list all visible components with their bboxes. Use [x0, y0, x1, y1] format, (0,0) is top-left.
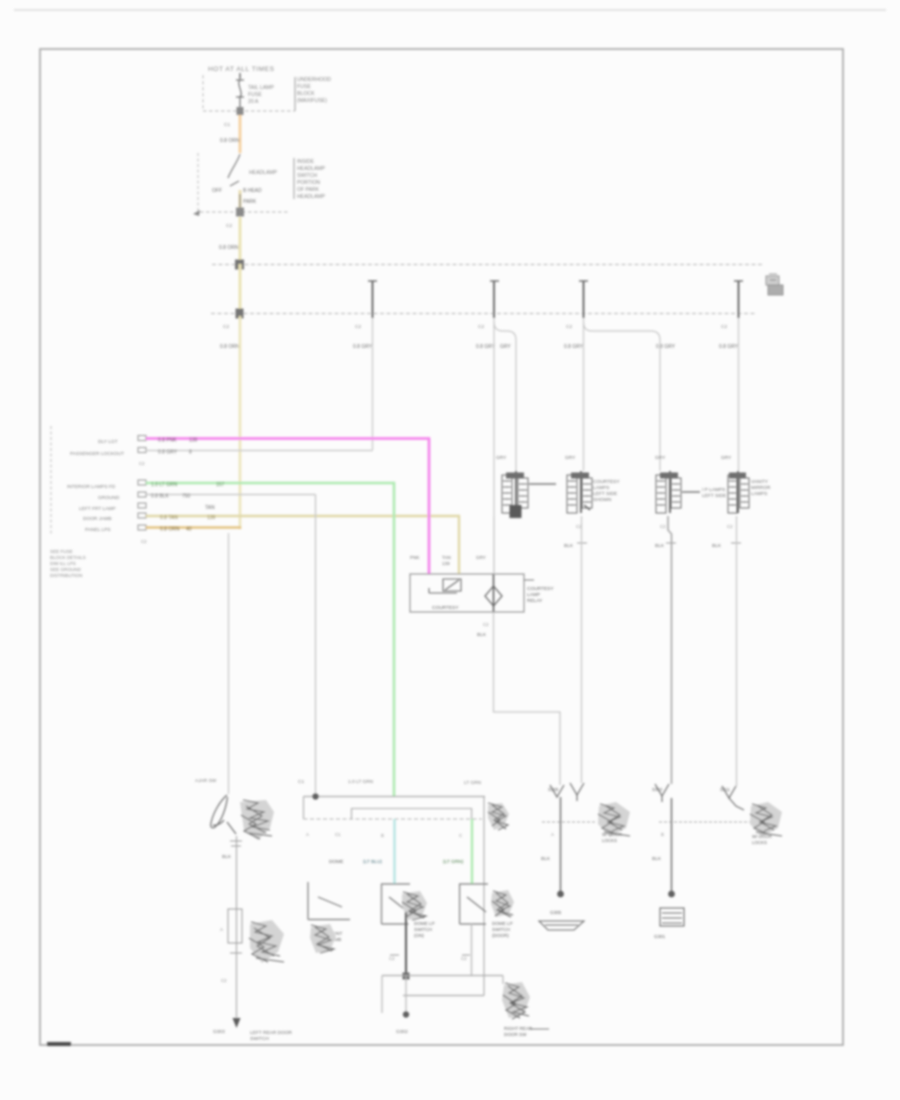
- svg-text:G301: G301: [654, 934, 666, 939]
- svg-text:BLK: BLK: [477, 632, 487, 638]
- switch SW-C icon: [491, 890, 514, 917]
- svg-text:139: 139: [442, 561, 450, 566]
- svg-text:SWITCH: SWITCH: [250, 1036, 269, 1042]
- wire ORN fuse to switch: [239, 115, 242, 153]
- svg-text:PORTION: PORTION: [297, 180, 320, 186]
- svg-text:TAN: TAN: [442, 555, 451, 560]
- svg-text:RELAY: RELAY: [527, 598, 543, 604]
- svg-text:SEE FUSE: SEE FUSE: [50, 549, 73, 554]
- bottom bus left drop: [381, 976, 383, 1014]
- svg-text:LOCKS: LOCKS: [602, 838, 617, 843]
- drop wire 1: [372, 281, 374, 318]
- svg-text:LAMPS: LAMPS: [593, 485, 609, 491]
- fuse F1: [236, 80, 244, 108]
- svg-text:C1: C1: [335, 832, 341, 837]
- svg-text:HEADLAMP: HEADLAMP: [297, 166, 326, 172]
- switch dashed boundary: [197, 153, 199, 212]
- svg-text:0.8 TAN: 0.8 TAN: [160, 515, 178, 521]
- junction dot gray wire at console: [312, 793, 318, 799]
- svg-text:PNK: PNK: [410, 555, 420, 560]
- svg-text:FUSE: FUSE: [248, 92, 262, 98]
- splice icon far right: [750, 802, 782, 837]
- svg-text:COURTESY: COURTESY: [527, 586, 554, 592]
- junction dot SW-B ground: [405, 976, 407, 1013]
- console box top: [304, 796, 486, 798]
- wire PNK vertical: [428, 437, 431, 574]
- wire to ground G2: [671, 798, 673, 892]
- svg-text:C2: C2: [139, 461, 145, 466]
- drop wire 2: [493, 281, 495, 318]
- svg-text:C: C: [459, 833, 462, 838]
- connector arrow A3: [655, 784, 669, 802]
- junction dot G1: [557, 891, 564, 898]
- wire lamp B return: [581, 516, 583, 783]
- switch SW-B icon: [402, 891, 427, 920]
- drop wire 3 tick: [579, 280, 588, 282]
- svg-text:HOT AT ALL TIMES: HOT AT ALL TIMES: [208, 66, 275, 73]
- wire ORN to left box: [239, 316, 242, 528]
- wire GRY row4: [146, 494, 316, 496]
- svg-text:OF PARK: OF PARK: [297, 187, 320, 193]
- svg-text:MIRROR: MIRROR: [751, 485, 771, 491]
- svg-text:0.8 GRY: 0.8 GRY: [158, 450, 178, 456]
- pin row 1: [138, 436, 146, 441]
- svg-text:G305: G305: [550, 910, 562, 915]
- console box left edge: [303, 797, 305, 820]
- svg-text:0.8 ORN: 0.8 ORN: [220, 344, 240, 350]
- fuse block bracket: [294, 77, 296, 111]
- svg-text:0.8 GRY: 0.8 GRY: [353, 344, 373, 350]
- svg-text:DOME LP: DOME LP: [414, 921, 435, 926]
- wire drop3 down to lamp B: [583, 318, 585, 471]
- junction dot G2: [668, 891, 675, 898]
- lamp L1 courtesy: [502, 471, 556, 513]
- wire GRY vertical row4: [315, 495, 317, 797]
- svg-text:C1: C1: [298, 779, 304, 785]
- svg-text:8: 8: [189, 450, 192, 456]
- wire drop4 down to lamp D: [738, 318, 740, 471]
- svg-text:0.8 GRY: 0.8 GRY: [564, 344, 584, 350]
- svg-text:GRY: GRY: [655, 455, 666, 461]
- connector arrow A2: [570, 783, 584, 801]
- bottom bus line 2: [403, 995, 484, 997]
- ground G305: [539, 910, 584, 930]
- svg-text:(LT BLU): (LT BLU): [363, 859, 382, 865]
- svg-text:SWITCH: SWITCH: [297, 173, 317, 179]
- svg-text:DOME LP: DOME LP: [492, 921, 513, 926]
- svg-text:0.8 GRY: 0.8 GRY: [656, 344, 676, 350]
- dome switch SW-C: [459, 884, 488, 924]
- switch SW-A icon: [310, 924, 336, 953]
- dashed inline connector right pair: [659, 821, 750, 823]
- svg-text:FUSE: FUSE: [297, 84, 311, 90]
- door branch splice icon: [250, 920, 284, 963]
- svg-text:0.8 GRY: 0.8 GRY: [719, 344, 739, 350]
- wire relay output path: [494, 612, 561, 785]
- wire SW-B output: [405, 912, 407, 976]
- svg-text:C2: C2: [226, 223, 232, 229]
- svg-text:0.8 GRY: 0.8 GRY: [476, 344, 496, 350]
- svg-text:BLK: BLK: [712, 543, 722, 549]
- lamp L2 courtesy: [567, 471, 592, 513]
- svg-text:BLK: BLK: [564, 543, 574, 549]
- svg-text:I P LAMPS: I P LAMPS: [702, 487, 725, 493]
- ground G301: [654, 908, 684, 939]
- inline connector door branch: [228, 909, 242, 943]
- lamp L3 courtesy: [656, 471, 700, 513]
- wire TAN row6: [146, 515, 459, 517]
- dashed connector line D: [211, 313, 756, 315]
- svg-text:SWITCH: SWITCH: [492, 927, 510, 932]
- svg-text:C1: C1: [224, 122, 230, 128]
- dashed inline connector left pair: [542, 821, 595, 823]
- svg-text:20 A: 20 A: [248, 99, 259, 105]
- svg-text:INSIDE: INSIDE: [297, 159, 315, 165]
- console box right edge: [483, 797, 485, 996]
- wire LT GRN row3: [146, 482, 394, 485]
- wire ORN corner: [239, 527, 242, 529]
- svg-text:DOOR SW: DOOR SW: [504, 1032, 527, 1037]
- svg-text:LEFT FRT LAMP: LEFT FRT LAMP: [79, 506, 116, 512]
- svg-text:LEFT REAR DOOR: LEFT REAR DOOR: [250, 1030, 293, 1036]
- svg-text:BLOCK: BLOCK: [297, 91, 315, 97]
- svg-text:G303: G303: [213, 1029, 225, 1035]
- lamp L4 courtesy: [728, 471, 749, 513]
- svg-text:(MAXIFUSE): (MAXIFUSE): [297, 98, 327, 104]
- connector icon C200: [766, 274, 783, 295]
- tick C1 door branch: [230, 840, 242, 842]
- wire LT BLU console: [393, 819, 395, 884]
- svg-text:C2: C2: [223, 324, 229, 330]
- dome switch SW-A: [308, 882, 350, 920]
- console dashed line: [304, 818, 483, 820]
- dashed connector line B: [200, 211, 290, 213]
- bottom splice tail: [530, 1028, 549, 1030]
- svg-text:HEADLAMP: HEADLAMP: [249, 170, 278, 176]
- svg-text:0.8 BLK: 0.8 BLK: [151, 494, 169, 500]
- svg-text:BLK: BLK: [541, 856, 551, 862]
- svg-text:PASSENGER LOCKOUT: PASSENGER LOCKOUT: [70, 451, 124, 457]
- svg-text:0.8 ORN: 0.8 ORN: [219, 245, 239, 251]
- bottom splice icon: [502, 982, 530, 1018]
- wire fuse feed: [239, 73, 241, 79]
- svg-text:139: 139: [189, 438, 198, 444]
- wire lamp A feed through relay: [493, 516, 495, 574]
- svg-text:DIM ILL LPS: DIM ILL LPS: [50, 561, 76, 566]
- wire ORN row7: [146, 526, 241, 529]
- connector pin on line B: [236, 208, 244, 217]
- svg-text:B HEAD: B HEAD: [243, 188, 262, 194]
- splice icon right of S309: [598, 802, 630, 837]
- svg-text:A: A: [551, 832, 554, 837]
- pin row 2: [138, 448, 146, 453]
- drop wire 3: [583, 281, 585, 318]
- pin row 5: [138, 503, 146, 508]
- pin row 6: [138, 513, 146, 518]
- svg-text:B: B: [661, 832, 664, 837]
- relay pointer: [524, 579, 534, 581]
- svg-text:C2: C2: [221, 978, 227, 983]
- svg-text:750: 750: [182, 494, 191, 500]
- tick C2 SW-C: [462, 954, 470, 956]
- svg-text:0.8 ORN: 0.8 ORN: [160, 527, 180, 533]
- svg-text:COURTESY: COURTESY: [593, 479, 620, 485]
- lamp L1 base: [510, 505, 522, 518]
- drop wire 1 tick: [368, 280, 377, 282]
- svg-text:C2: C2: [483, 622, 489, 627]
- bottom bus right drop: [502, 976, 504, 985]
- wire PNK row1: [146, 437, 429, 440]
- tick C2 SW-B: [390, 954, 399, 956]
- pin row 7: [138, 525, 146, 530]
- wire LT GRN vertical: [393, 482, 396, 797]
- pin row 3: [138, 480, 146, 485]
- console connector icon: [488, 803, 509, 830]
- ground arrow door branch: [233, 1018, 241, 1028]
- svg-text:0.8 PNK: 0.8 PNK: [158, 438, 177, 444]
- drop wire 2 tick: [490, 280, 499, 282]
- svg-text:C2: C2: [721, 324, 727, 330]
- svg-text:157: 157: [216, 482, 225, 488]
- svg-text:SWITCH: SWITCH: [414, 927, 432, 932]
- svg-text:LOCKS: LOCKS: [752, 840, 767, 845]
- svg-text:GROUND: GROUND: [98, 495, 120, 501]
- arrow A4 tail: [729, 798, 744, 810]
- connector arrow A4: [722, 786, 736, 798]
- footer tick mark: [47, 1042, 71, 1046]
- wire ORN to line D: [239, 264, 242, 313]
- svg-text:PANEL LPS: PANEL LPS: [85, 527, 111, 533]
- svg-text:GRY: GRY: [476, 555, 486, 560]
- wire below door switch: [236, 836, 238, 1019]
- svg-text:DOME: DOME: [329, 859, 343, 865]
- svg-text:G302: G302: [396, 1029, 408, 1035]
- dashed connector line C: [212, 264, 762, 266]
- door switch DS1: [211, 795, 236, 834]
- svg-text:RIGHT REAR: RIGHT REAR: [504, 1026, 533, 1031]
- bottom bus line 1: [382, 975, 503, 977]
- door switch icon: [240, 800, 274, 840]
- svg-text:BLOCK DETAILS: BLOCK DETAILS: [50, 555, 86, 560]
- console inner box: [352, 809, 472, 820]
- junction on line C: [235, 260, 244, 270]
- wire lamp D return: [736, 516, 738, 786]
- wire door sw branch: [228, 533, 230, 794]
- svg-text:C2: C2: [389, 956, 395, 961]
- svg-text:SHOWN: SHOWN: [593, 497, 612, 503]
- wire branch to lamp C: [584, 322, 661, 471]
- wire SW-C output: [471, 924, 473, 976]
- svg-text:C2: C2: [727, 524, 733, 529]
- svg-text:AJAR SW: AJAR SW: [195, 778, 217, 784]
- wire branch to lamp A: [494, 322, 516, 471]
- svg-text:LAMP: LAMP: [527, 592, 540, 598]
- svg-text:C2: C2: [478, 324, 484, 330]
- svg-text:C2: C2: [461, 956, 467, 961]
- svg-text:A: A: [220, 927, 223, 932]
- svg-text:BLK: BLK: [655, 543, 665, 549]
- svg-text:C2: C2: [566, 324, 572, 330]
- headlamp switch S1: [228, 154, 240, 212]
- pin row 4: [138, 492, 146, 497]
- svg-text:(DOOR): (DOOR): [492, 933, 509, 938]
- drop wire 4: [738, 281, 740, 318]
- svg-text:DOOR JAMB: DOOR JAMB: [83, 516, 112, 522]
- svg-text:B: B: [381, 833, 384, 838]
- junction SW-B at bus: [403, 973, 410, 980]
- connector arrow A1: [550, 785, 564, 797]
- svg-text:C2: C2: [355, 324, 361, 330]
- wire to ground G1: [560, 797, 562, 892]
- svg-text:UNDERHOOD: UNDERHOOD: [297, 77, 331, 83]
- svg-text:S310: S310: [652, 787, 663, 792]
- svg-text:C2: C2: [660, 524, 666, 529]
- tick C2 door branch: [230, 952, 242, 954]
- svg-text:(ON): (ON): [414, 933, 424, 938]
- wire drop1 to gray row: [372, 318, 374, 451]
- svg-text:W/ DOOR: W/ DOOR: [602, 832, 622, 837]
- relay K1 box: [410, 574, 524, 612]
- svg-text:GRY: GRY: [500, 344, 511, 350]
- svg-text:1.0 LT GRN: 1.0 LT GRN: [151, 482, 178, 488]
- connector pin C1: [237, 107, 244, 115]
- relay K1 diode: [485, 574, 502, 612]
- svg-text:TAN: TAN: [205, 505, 215, 511]
- svg-text:40: 40: [186, 527, 192, 533]
- page top rule: [14, 9, 886, 11]
- wire drop2 down to lamp A and relay: [493, 318, 495, 573]
- svg-text:INTERIOR LAMPS FD: INTERIOR LAMPS FD: [67, 484, 116, 490]
- svg-text:PARK: PARK: [243, 199, 257, 205]
- svg-text:DISTRIBUTION: DISTRIBUTION: [50, 573, 82, 578]
- svg-text:LAMPS: LAMPS: [751, 491, 767, 497]
- svg-text:GRY: GRY: [565, 455, 576, 461]
- wire LT GRN console: [471, 819, 473, 884]
- svg-text:0.8 ORN: 0.8 ORN: [220, 138, 240, 144]
- junction on line D: [236, 309, 244, 319]
- svg-text:C2: C2: [141, 539, 147, 544]
- switch text bracket: [293, 158, 295, 199]
- wire ORN switch down: [239, 217, 242, 262]
- svg-text:HEADLAMP: HEADLAMP: [297, 194, 326, 200]
- wire TAN vertical: [458, 515, 460, 574]
- drop wire 4 tick: [734, 280, 743, 282]
- svg-text:(LT GRN): (LT GRN): [443, 859, 464, 865]
- svg-text:VANITY: VANITY: [751, 479, 769, 485]
- svg-text:139: 139: [207, 515, 216, 521]
- svg-text:1.0 LT GRN: 1.0 LT GRN: [348, 779, 374, 785]
- svg-text:GRY: GRY: [721, 455, 732, 461]
- relay K1 coil: [429, 579, 461, 593]
- body connector dashed boundary: [50, 426, 52, 536]
- line B left arrow: [193, 210, 200, 216]
- dashed connector line A: [203, 110, 295, 112]
- svg-text:A: A: [306, 832, 309, 837]
- wire lamp C return: [668, 516, 672, 784]
- svg-text:BLK: BLK: [222, 854, 232, 860]
- svg-text:LEFT SIDE: LEFT SIDE: [593, 491, 617, 497]
- svg-text:GRY: GRY: [496, 455, 507, 461]
- svg-text:S309: S309: [548, 787, 559, 792]
- svg-text:LEFT SIDE: LEFT SIDE: [702, 493, 726, 499]
- svg-text:SEE GROUND: SEE GROUND: [50, 567, 82, 572]
- svg-text:TAIL LAMP: TAIL LAMP: [248, 85, 274, 91]
- svg-text:BLK: BLK: [652, 856, 662, 862]
- svg-text:S311: S311: [720, 787, 730, 792]
- svg-text:DLY LGT: DLY LGT: [98, 439, 118, 445]
- svg-text:W/ DOOR: W/ DOOR: [752, 834, 772, 839]
- dome switch SW-B: [381, 884, 410, 924]
- wire GRY row2: [146, 450, 373, 452]
- svg-text:LT GRN: LT GRN: [464, 780, 482, 786]
- svg-text:COURTESY: COURTESY: [432, 605, 459, 611]
- svg-text:OFF: OFF: [212, 188, 222, 194]
